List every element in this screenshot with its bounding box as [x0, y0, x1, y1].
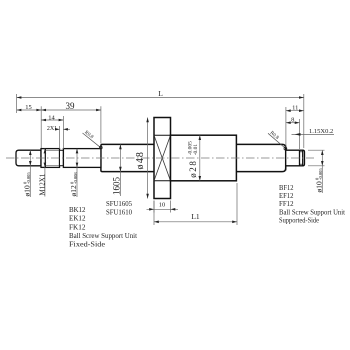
- svg-text:L1: L1: [191, 212, 200, 221]
- svg-text:15: 15: [25, 104, 32, 111]
- label 1605: [119, 144, 121, 196]
- R0.8 leader left: [83, 133, 101, 147]
- centerline: [6, 157, 314, 159]
- dim 39: [41, 106, 101, 143]
- M12 chamfer line: [45, 149, 47, 168]
- dim Ø12: [76, 149, 78, 197]
- svg-text:ø10: ø10: [22, 185, 31, 197]
- svg-text:Supported-Side: Supported-Side: [279, 216, 320, 225]
- dim L: [17, 94, 304, 148]
- label Ø12 0/-0.008: [69, 172, 78, 197]
- svg-text:14: 14: [48, 114, 55, 121]
- svg-text:1.15X0.2: 1.15X0.2: [309, 128, 333, 135]
- svg-text:ø28: ø28: [188, 159, 198, 177]
- svg-text:-0.01: -0.01: [193, 144, 199, 156]
- svg-text:2X1: 2X1: [47, 126, 57, 132]
- flange X cross: [154, 135, 171, 181]
- svg-text:-0.005: -0.005: [318, 168, 323, 180]
- dim L1: [154, 183, 237, 225]
- label 1.15X0.2 with leader: [292, 133, 335, 135]
- relief groove 2X1: [60, 150, 64, 165]
- label Ø28 -0.005/-0.01: [188, 141, 199, 178]
- dim Ø28: [199, 135, 201, 181]
- svg-text:M12X1: M12X1: [38, 173, 46, 195]
- left journal Ø10: [16, 150, 41, 166]
- label Ø10 0/-0.005 right: [314, 168, 323, 193]
- flange inner lines at nut OD: [154, 134, 171, 136]
- dim 15: [17, 106, 42, 148]
- screw shaft body 1605: [101, 144, 286, 171]
- svg-text:10: 10: [159, 202, 166, 209]
- dim Ø10 right: [308, 150, 325, 193]
- svg-text:11: 11: [292, 105, 298, 112]
- svg-text:Fixed-Side: Fixed-Side: [69, 239, 106, 248]
- svg-text:8: 8: [291, 116, 294, 123]
- label M12X1: [44, 149, 46, 197]
- dim 2X1 groove: [56, 126, 70, 149]
- svg-text:FK12: FK12: [69, 222, 86, 231]
- R0.8 leader right: [268, 133, 285, 148]
- svg-text:-0.008: -0.008: [73, 172, 78, 184]
- svg-text:ø48: ø48: [135, 151, 146, 170]
- screw right end face: [285, 146, 287, 171]
- circlip groove 1.15X0.2: [299, 150, 301, 166]
- svg-text:R0.8: R0.8: [83, 130, 94, 140]
- dim Ø48: [147, 118, 149, 199]
- M12 thread root lines: [46, 149, 60, 151]
- M12X1 thread section: [41, 149, 60, 168]
- svg-text:39: 39: [66, 101, 76, 111]
- ball nut flange Ø48: [154, 118, 171, 199]
- svg-text:ø12: ø12: [69, 185, 78, 197]
- svg-text:BK12: BK12: [69, 205, 86, 214]
- dim Ø10 left: [29, 150, 31, 197]
- svg-text:SFU1610: SFU1610: [106, 208, 132, 217]
- dim 8: [286, 119, 300, 149]
- svg-text:L: L: [158, 89, 163, 98]
- svg-text:-0.005: -0.005: [26, 172, 31, 184]
- dim 10 flange width: [147, 201, 179, 213]
- dim 11: [286, 107, 304, 148]
- svg-text:1605: 1605: [112, 177, 122, 196]
- svg-text:R0.8: R0.8: [269, 131, 280, 141]
- dim 14: [41, 116, 63, 149]
- right journal Ø10: [286, 150, 305, 166]
- ball nut body Ø28: [171, 135, 237, 181]
- svg-text:ø10: ø10: [314, 181, 323, 193]
- label Ø10 0/-0.005 left: [22, 172, 31, 197]
- Ø12 journal section: [63, 149, 101, 168]
